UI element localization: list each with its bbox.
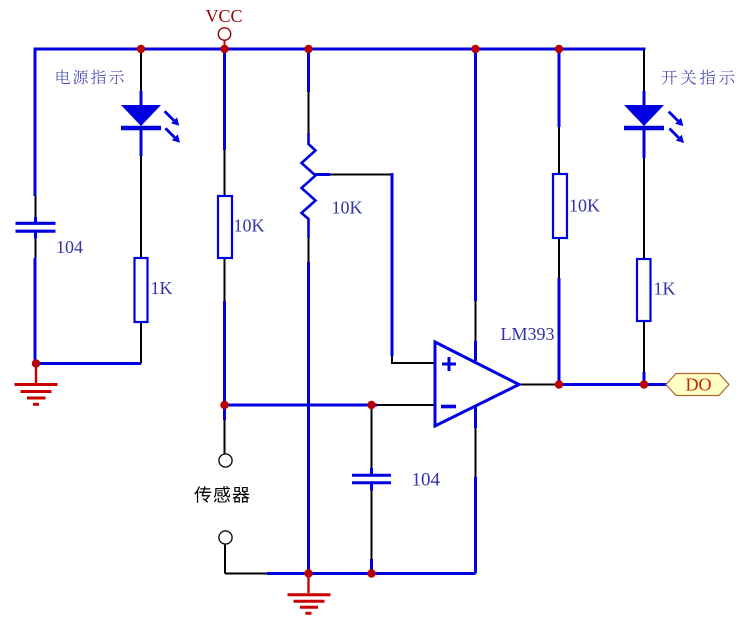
wire R3 column <box>558 49 561 127</box>
junction dot output / R3 <box>555 380 563 388</box>
potentiometer RP1 10K zigzag <box>302 133 316 238</box>
junction dot -input / C2 <box>367 401 375 409</box>
wire wiper to +input <box>315 173 330 176</box>
svg-text:10K: 10K <box>234 216 265 236</box>
wire LED2 column <box>643 48 646 51</box>
wire top VCC rail <box>35 48 643 51</box>
wire potentiometer column <box>307 49 310 92</box>
svg-text:1K: 1K <box>151 278 173 298</box>
op-amp U1 LM393 <box>435 342 519 426</box>
wire R1 column <box>223 49 226 150</box>
power port VCC <box>224 40 226 48</box>
connector J1 sensor pin 1 <box>219 454 232 467</box>
junction dot VCC rail / U1 V+ branch <box>471 45 479 53</box>
junction dot -input / sensor <box>220 401 228 409</box>
wire sensor cap column <box>371 405 373 468</box>
svg-text:10K: 10K <box>569 196 600 216</box>
capacitor C2 104 (bottom) <box>352 474 391 477</box>
wire left column (C1 branch) <box>34 48 37 197</box>
wire ground link row <box>35 362 141 365</box>
label 开关指示 (switch indicator) <box>662 70 677 85</box>
ground GND1 (left) <box>35 364 37 384</box>
junction dot VCC rail / RP1 branch <box>304 45 312 53</box>
junction dot ground link <box>32 359 40 367</box>
junction dot ground rail / RP1 <box>304 569 312 577</box>
wire -input row <box>225 404 378 407</box>
junction dot output / R4 <box>640 380 648 388</box>
label 电源指示 (power indicator) <box>57 70 70 84</box>
wire opamp V- pin <box>474 407 477 428</box>
resistor R1 10K (middle) <box>218 196 232 258</box>
label 传感器 (sensor) <box>194 486 211 502</box>
junction dot ground rail / C2 <box>367 569 375 577</box>
svg-text:1K: 1K <box>654 279 676 299</box>
svg-text:LM393: LM393 <box>501 324 555 344</box>
LED D2 (switch indicator) <box>624 105 664 126</box>
wire output row <box>519 384 555 386</box>
svg-text:VCC: VCC <box>206 6 243 26</box>
svg-text:104: 104 <box>56 237 83 257</box>
resistor R2 1K (left) <box>135 258 148 322</box>
resistor R3 10K (right) <box>553 174 567 238</box>
connector J1 sensor pin 2 <box>219 531 232 544</box>
resistor R4 1K (right) <box>637 259 651 321</box>
svg-text:10K: 10K <box>332 198 363 218</box>
wire LED1 column <box>140 50 142 91</box>
junction dot VCC rail / R1 branch <box>220 45 228 53</box>
svg-text:DO: DO <box>686 375 712 395</box>
ground GND2 (bottom) <box>307 574 309 594</box>
svg-text:104: 104 <box>412 470 441 491</box>
junction dot VCC rail / D1 branch <box>137 45 145 53</box>
wire bottom ground rail <box>225 545 267 574</box>
junction dot VCC rail / R3 branch <box>555 45 563 53</box>
port DO flag <box>666 374 729 396</box>
LED D1 (power indicator) <box>121 105 161 126</box>
wire opamp V+ pin <box>474 49 477 301</box>
capacitor C1 104 (left) <box>16 222 56 225</box>
